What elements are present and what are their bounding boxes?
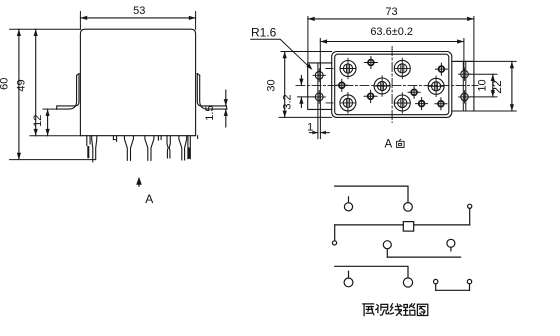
terminal P10 <box>467 279 471 283</box>
svg-text:63.6±0.2: 63.6±0.2 <box>370 26 413 38</box>
right bracket strip <box>463 61 466 111</box>
dimension 73 (overall width) <box>308 17 474 63</box>
dimension 53 (top width) <box>80 12 195 30</box>
terminal big TC <box>394 58 410 79</box>
dimension 10 (right hole spacing) <box>469 74 498 97</box>
terminal P4 <box>332 241 336 245</box>
left bracket strip <box>318 63 321 139</box>
terminal big BC <box>394 93 410 114</box>
svg-text:3.2: 3.2 <box>281 94 293 109</box>
pin 4 (fork lug) <box>145 136 154 161</box>
svg-text:12: 12 <box>32 115 44 127</box>
dimension 12 (bracket foot to bottom) <box>43 108 57 110</box>
terminal big ML <box>374 76 390 97</box>
svg-text:10: 10 <box>477 79 489 91</box>
terminal P6 <box>447 239 455 247</box>
relay body outline <box>80 29 195 136</box>
terminal small S5 <box>416 98 428 110</box>
svg-text:22: 22 <box>490 80 504 94</box>
dimension 22 (tab height) <box>455 61 516 111</box>
wire middle left <box>335 224 404 226</box>
label A向 (view A) <box>385 139 405 151</box>
right mounting bracket <box>197 74 226 106</box>
svg-text:73: 73 <box>385 6 397 18</box>
big screw terminals <box>340 58 444 113</box>
body outer outline <box>332 52 452 118</box>
dimension 49 (body height) <box>30 135 80 137</box>
terminal P5 stem <box>386 249 388 257</box>
svg-text:A: A <box>145 192 153 206</box>
pin 8 group (with solder lug bar) <box>188 136 190 159</box>
terminal small S6 <box>435 98 447 110</box>
small terminals <box>336 57 448 110</box>
terminal P9 stem <box>435 284 437 291</box>
leader R1.6 <box>251 39 311 68</box>
right mounting hole upper <box>461 70 469 78</box>
terminal P3 <box>468 204 472 208</box>
svg-text:49: 49 <box>15 79 27 91</box>
terminal P3 stem <box>469 208 471 225</box>
terminal P9 <box>434 279 438 283</box>
dimension 1 (strip thickness) <box>309 132 329 134</box>
left mounting hole lower <box>315 93 323 101</box>
svg-text:A: A <box>385 139 393 151</box>
char 路 <box>404 304 415 316</box>
pin stub 2 <box>113 136 116 142</box>
coil square <box>403 222 413 232</box>
terminal P1 <box>344 203 352 211</box>
terminal big BL <box>340 93 356 114</box>
top view dimension texts <box>251 6 504 133</box>
left mounting bracket <box>57 74 79 106</box>
char 线 <box>390 304 402 316</box>
terminal P1 stem <box>348 197 350 203</box>
right mounting hole lower <box>461 93 469 101</box>
svg-text:30: 30 <box>266 79 278 91</box>
svg-text:53: 53 <box>133 5 145 17</box>
terminal small S7 <box>435 63 447 75</box>
terminal big TL <box>340 58 356 79</box>
terminal big MR <box>428 76 444 97</box>
left view dimension texts <box>0 5 216 206</box>
caption 底视线路图 (bottom view circuit diagram), drawn strokes <box>363 304 428 316</box>
terminal P4 stem <box>334 225 336 241</box>
pin 3 (fork lug) <box>124 136 133 161</box>
terminal P5 <box>383 241 391 249</box>
dimension 3.2 (hole offset) <box>298 96 317 98</box>
vertical centerline <box>391 47 393 123</box>
char 图 <box>417 304 427 315</box>
svg-text:R1.6: R1.6 <box>251 26 277 40</box>
wire middle right <box>414 224 470 226</box>
terminal small S4 <box>408 86 420 98</box>
terminal small S2 <box>336 79 348 91</box>
char 视 <box>376 304 389 315</box>
wire top <box>335 186 408 203</box>
wire lower middle <box>387 256 460 258</box>
view direction arrow A <box>136 177 142 185</box>
dimension 1.5 (bracket thickness) <box>225 90 227 127</box>
pin 1 group (leftmost, with solder lug bar) <box>87 136 90 146</box>
terminal small S1 <box>364 57 377 69</box>
horizontal centerline <box>296 84 478 86</box>
dimension 60 (overall height) <box>10 28 81 30</box>
terminal P10 stem <box>469 284 471 291</box>
left mounting hole upper <box>315 71 323 79</box>
dimension 63.6±0.2 (hole spacing) <box>320 39 464 71</box>
svg-text:60: 60 <box>0 78 11 90</box>
pin stub 9 (right corner) <box>197 136 199 139</box>
terminal P7 stem <box>348 271 350 278</box>
edge tick marks left <box>326 69 333 103</box>
terminal P8 <box>403 278 412 287</box>
char 底 <box>363 304 374 316</box>
terminal P6 stem <box>450 247 452 251</box>
dimension 30 (body height) <box>279 52 332 118</box>
pin 7 (fork lug) <box>179 136 187 160</box>
terminal small S3 <box>364 90 377 102</box>
terminal P7 <box>344 278 353 287</box>
pin 6 (narrow lug) <box>167 136 170 158</box>
svg-text:1: 1 <box>307 122 313 134</box>
wire lower left <box>335 266 408 278</box>
terminal P2 <box>404 203 413 212</box>
left mounting tab <box>308 63 332 110</box>
body inner outline <box>335 54 449 114</box>
right mounting tab <box>452 61 474 111</box>
wire bottom right <box>436 289 470 291</box>
svg-text:1.5: 1.5 <box>204 105 216 120</box>
pin stub 5 <box>158 136 161 141</box>
